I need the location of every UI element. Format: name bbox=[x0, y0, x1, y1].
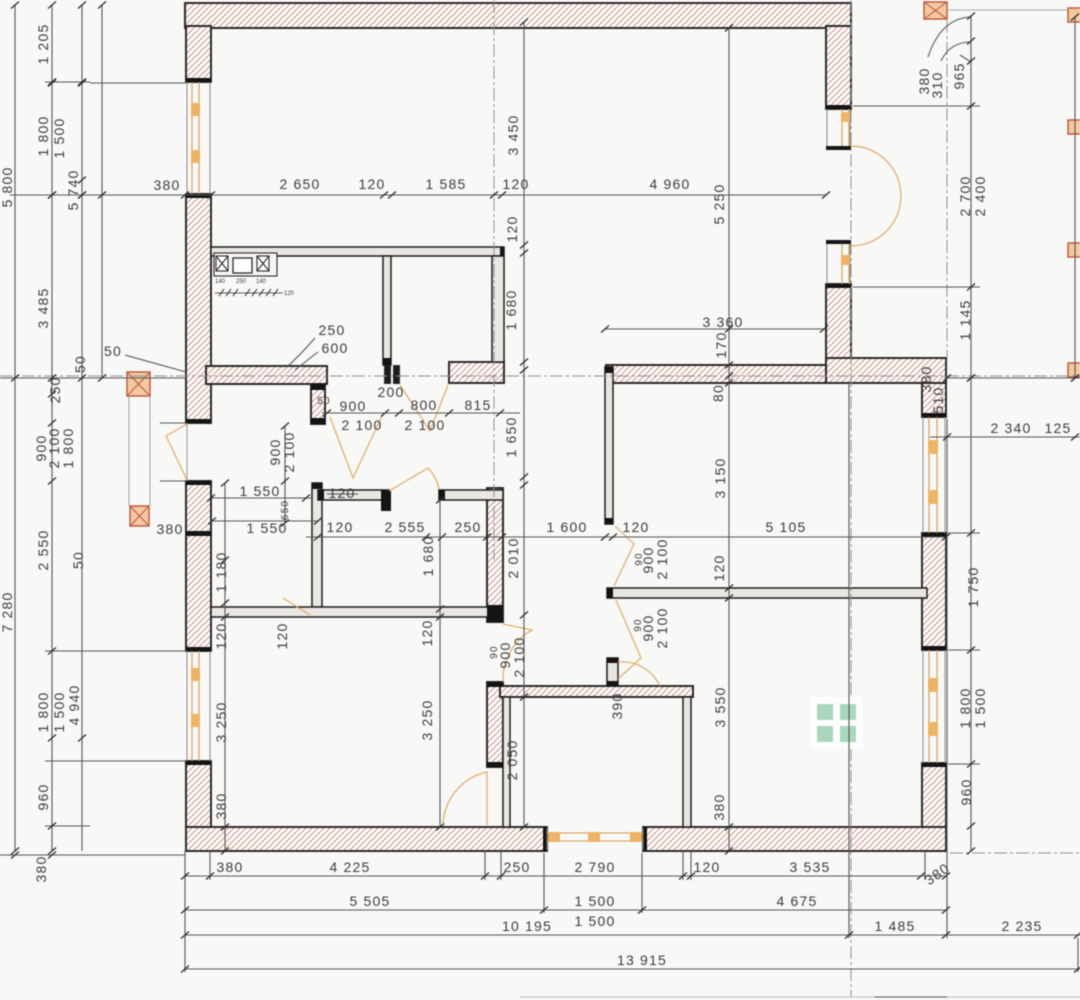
svg-text:7 280: 7 280 bbox=[0, 591, 15, 632]
svg-text:2 340: 2 340 bbox=[990, 420, 1031, 436]
svg-text:120: 120 bbox=[419, 620, 435, 647]
extension lines left bbox=[10, 83, 186, 826]
svg-text:120: 120 bbox=[504, 216, 520, 243]
terrace columns right edge bbox=[1068, 8, 1080, 377]
entry door outer face line bbox=[186, 423, 188, 481]
dim line 1550 upper bbox=[211, 497, 312, 499]
door bath bbox=[389, 468, 439, 491]
svg-text:2 555: 2 555 bbox=[384, 519, 425, 535]
svg-text:250: 250 bbox=[319, 322, 346, 338]
svg-text:1 550: 1 550 bbox=[239, 483, 280, 499]
svg-text:1 680: 1 680 bbox=[420, 535, 436, 576]
svg-text:2 400: 2 400 bbox=[972, 175, 988, 216]
svg-text:120: 120 bbox=[711, 555, 727, 582]
wall right-lower exterior bottom block bbox=[922, 763, 946, 851]
svg-text:13 915: 13 915 bbox=[617, 952, 667, 968]
dim line 2340 y437 bbox=[930, 436, 1080, 438]
svg-text:250: 250 bbox=[504, 859, 531, 875]
dim line bottom left y855 bbox=[0, 854, 185, 856]
svg-text:1 500: 1 500 bbox=[51, 117, 67, 158]
leader lines left step bbox=[125, 338, 318, 372]
grid dash-dot horizontal main bbox=[0, 375, 1080, 377]
svg-text:2 100: 2 100 bbox=[281, 431, 297, 472]
svg-text:5 250: 5 250 bbox=[711, 183, 727, 224]
door bottom-left room bbox=[443, 772, 487, 825]
svg-text:380: 380 bbox=[154, 177, 181, 193]
svg-text:510: 510 bbox=[930, 387, 946, 414]
svg-text:3 550: 3 550 bbox=[712, 686, 728, 727]
wall right-upper exterior block above window bbox=[826, 26, 851, 109]
svg-text:140: 140 bbox=[256, 279, 267, 285]
wall right-upper exterior block below doors bbox=[826, 284, 851, 360]
svg-text:960: 960 bbox=[35, 784, 51, 811]
wall end caps and window jambs bbox=[186, 78, 946, 851]
porch column left lower bbox=[130, 506, 149, 526]
svg-text:5 105: 5 105 bbox=[765, 519, 806, 535]
bottom edge artifact line bbox=[520, 996, 1080, 998]
terrace edge lines bbox=[947, 10, 1075, 363]
wall left exterior mid block bbox=[186, 194, 211, 423]
svg-text:1 500: 1 500 bbox=[574, 913, 615, 929]
dim line bottom chain3 y935 bbox=[185, 934, 1080, 936]
dim vertical x225 bbox=[224, 483, 226, 851]
wall G vertical hall west bbox=[312, 483, 322, 607]
dim vertical x729 bbox=[728, 28, 730, 851]
svg-text:50: 50 bbox=[70, 551, 86, 569]
wall J bath north left part bbox=[318, 490, 389, 500]
svg-text:1 145: 1 145 bbox=[957, 299, 973, 340]
window bottom wall bbox=[547, 828, 643, 850]
wall hall-south hatched lower block bbox=[487, 682, 503, 767]
svg-text:390: 390 bbox=[609, 693, 625, 720]
svg-text:5 800: 5 800 bbox=[0, 166, 15, 207]
dim vertical right x971 bbox=[970, 16, 972, 851]
dim vertical L4 x102 bbox=[101, 5, 103, 378]
svg-text:380: 380 bbox=[33, 856, 49, 883]
dim line bottom chain2 y910 bbox=[185, 909, 947, 911]
wall step horizontal right bbox=[826, 358, 946, 383]
svg-text:1 485: 1 485 bbox=[874, 918, 915, 934]
wall bottom exterior right part bbox=[643, 827, 946, 851]
dim vertical L2 x52 bbox=[51, 5, 53, 851]
wall bottom exterior left part bbox=[186, 827, 547, 851]
chimney tiny dims bbox=[215, 279, 295, 297]
wall H bedroom1 north bbox=[211, 607, 489, 617]
svg-text:170: 170 bbox=[713, 332, 729, 359]
window left lower bbox=[187, 651, 210, 761]
door closet arc bbox=[618, 662, 660, 686]
window left upper bbox=[187, 82, 210, 194]
wall L living south horizontal bbox=[607, 588, 927, 598]
wall B vertical between top rooms bbox=[383, 256, 391, 365]
svg-text:310: 310 bbox=[929, 72, 945, 99]
leader lines top right bbox=[928, 17, 971, 57]
svg-text:250: 250 bbox=[236, 279, 247, 285]
svg-text:1 750: 1 750 bbox=[965, 566, 981, 607]
svg-text:380: 380 bbox=[213, 793, 229, 820]
dim line top chain y195 bbox=[10, 194, 826, 196]
svg-text:5 505: 5 505 bbox=[349, 893, 390, 909]
door corridor 900 bbox=[330, 414, 383, 478]
svg-text:1 600: 1 600 bbox=[546, 519, 587, 535]
exterior walls bbox=[185, 3, 946, 851]
svg-text:650: 650 bbox=[280, 500, 291, 520]
svg-text:2 100: 2 100 bbox=[341, 417, 382, 433]
wall bottom-middle room north bbox=[500, 686, 693, 697]
svg-text:2 050: 2 050 bbox=[504, 739, 520, 780]
svg-text:50: 50 bbox=[104, 343, 122, 359]
svg-text:2 100: 2 100 bbox=[654, 607, 670, 648]
svg-text:120: 120 bbox=[359, 176, 386, 192]
svg-text:900: 900 bbox=[340, 398, 367, 414]
dim vertical terrace x1075 bbox=[1074, 17, 1076, 378]
dim line 3360 bbox=[605, 328, 824, 330]
svg-text:120: 120 bbox=[329, 485, 356, 501]
dim line 1550 lower bbox=[211, 520, 318, 522]
wall M bottom-middle room east bbox=[683, 697, 691, 827]
wall C vertical right of top rooms bbox=[492, 256, 504, 362]
svg-text:1 800: 1 800 bbox=[35, 691, 51, 732]
svg-text:50: 50 bbox=[317, 396, 331, 407]
horizontal dimension labels bbox=[104, 176, 1071, 968]
green logo watermark bbox=[810, 697, 863, 749]
window right-upper above terrace doors bbox=[827, 109, 850, 146]
svg-text:1 585: 1 585 bbox=[425, 176, 466, 192]
svg-text:2 550: 2 550 bbox=[35, 529, 51, 570]
svg-text:4 940: 4 940 bbox=[66, 684, 82, 725]
svg-text:120: 120 bbox=[327, 519, 354, 535]
svg-text:10 195: 10 195 bbox=[502, 918, 552, 934]
svg-text:1 800: 1 800 bbox=[60, 427, 76, 468]
chimney block detail bbox=[214, 253, 277, 276]
svg-text:1 800: 1 800 bbox=[35, 115, 51, 156]
wall J bath north right part bbox=[439, 490, 503, 500]
svg-text:120: 120 bbox=[274, 623, 290, 650]
terrace double door arcs bbox=[851, 146, 901, 246]
svg-text:140: 140 bbox=[215, 279, 226, 285]
svg-text:965: 965 bbox=[951, 63, 967, 90]
wall pier between doors bbox=[385, 366, 390, 383]
entry door left wall bbox=[166, 424, 187, 480]
svg-text:120: 120 bbox=[284, 291, 295, 297]
dim line right y378 bbox=[0, 377, 1080, 379]
wall stub right of corridor doors bbox=[449, 362, 504, 383]
svg-text:2 100: 2 100 bbox=[511, 636, 527, 677]
dim vertical L1 x15 bbox=[14, 5, 16, 851]
porch column left upper bbox=[127, 372, 150, 396]
dim line mid chain y537 bbox=[306, 536, 946, 538]
svg-text:80: 80 bbox=[710, 384, 726, 402]
door bedroom1 small leaf bbox=[283, 598, 310, 615]
svg-text:3 250: 3 250 bbox=[419, 699, 435, 740]
door living south leaf bbox=[616, 600, 641, 679]
svg-text:3 535: 3 535 bbox=[789, 859, 830, 875]
svg-text:4 675: 4 675 bbox=[776, 893, 817, 909]
svg-text:3 485: 3 485 bbox=[35, 287, 51, 328]
svg-text:380: 380 bbox=[711, 794, 727, 821]
wall A top rooms south bbox=[211, 247, 504, 256]
wall living-north hatched bbox=[606, 365, 826, 383]
svg-text:1 650: 1 650 bbox=[503, 416, 519, 457]
svg-text:815: 815 bbox=[465, 397, 492, 413]
extension lines right bbox=[853, 106, 980, 764]
interior walls bbox=[211, 247, 927, 827]
door corridor 800 bbox=[400, 385, 448, 431]
wall left exterior upper block bbox=[186, 26, 211, 82]
wall left exterior bottom block bbox=[186, 761, 211, 829]
dim vertical x440 bbox=[439, 500, 441, 827]
door bottom-middle room bbox=[503, 624, 532, 682]
grid dash-dot horizontal bottom right bbox=[950, 852, 1080, 854]
svg-text:1 500: 1 500 bbox=[972, 687, 988, 728]
svg-text:250: 250 bbox=[47, 377, 63, 404]
grid dash-dot vertical B bbox=[850, 0, 852, 997]
dim vertical x524 bbox=[523, 22, 525, 827]
rotated dimension labels bbox=[0, 23, 988, 882]
svg-text:800: 800 bbox=[411, 397, 438, 413]
svg-text:960: 960 bbox=[958, 779, 974, 806]
porch outline lines bbox=[129, 396, 150, 506]
wall O stub at bottom-middle room bbox=[607, 658, 618, 686]
svg-text:120: 120 bbox=[694, 859, 721, 875]
svg-text:1 550: 1 550 bbox=[246, 520, 287, 536]
wall step vertical right bbox=[922, 383, 946, 417]
svg-text:2 100: 2 100 bbox=[654, 538, 670, 579]
svg-text:3 360: 3 360 bbox=[702, 314, 743, 330]
svg-text:2 010: 2 010 bbox=[505, 537, 521, 578]
window right-upper below terrace doors bbox=[827, 244, 850, 284]
extension lines bottom bbox=[185, 383, 1078, 972]
dim line bottom chain1 y876 bbox=[185, 875, 947, 877]
svg-text:125: 125 bbox=[1045, 420, 1072, 436]
svg-text:120: 120 bbox=[503, 176, 530, 192]
svg-text:3 150: 3 150 bbox=[712, 457, 728, 498]
svg-text:120: 120 bbox=[623, 519, 650, 535]
svg-text:2 790: 2 790 bbox=[574, 859, 615, 875]
svg-text:380: 380 bbox=[157, 521, 184, 537]
svg-text:3 250: 3 250 bbox=[213, 701, 229, 742]
grid dash-dot vertical A bbox=[493, 0, 495, 560]
terrace column top bbox=[924, 2, 947, 19]
wall hall-south hatched upper block bbox=[487, 488, 503, 622]
svg-text:2 100: 2 100 bbox=[404, 417, 445, 433]
svg-text:4 960: 4 960 bbox=[649, 176, 690, 192]
door living north leaf bbox=[614, 526, 634, 586]
svg-text:5 740: 5 740 bbox=[65, 169, 81, 210]
grid dash-dot vertical C bbox=[946, 20, 948, 378]
svg-text:2 700: 2 700 bbox=[957, 175, 973, 216]
svg-text:380: 380 bbox=[921, 860, 952, 889]
svg-text:1 500: 1 500 bbox=[574, 893, 615, 909]
svg-text:1 205: 1 205 bbox=[35, 23, 51, 64]
wall right-lower exterior block mid bbox=[922, 533, 946, 650]
svg-text:1 800: 1 800 bbox=[957, 687, 973, 728]
svg-text:3 450: 3 450 bbox=[505, 114, 521, 155]
strike line bbox=[327, 493, 358, 495]
wall stub below left step bbox=[311, 384, 325, 424]
svg-text:1 680: 1 680 bbox=[503, 289, 519, 330]
svg-text:4 225: 4 225 bbox=[329, 859, 370, 875]
window right-lower lower bbox=[923, 650, 945, 763]
wall K living west vertical bbox=[605, 367, 613, 524]
svg-text:1 500: 1 500 bbox=[51, 691, 67, 732]
dim vertical x285 entry bbox=[284, 426, 286, 523]
svg-text:2 650: 2 650 bbox=[279, 176, 320, 192]
wall top exterior bbox=[185, 3, 851, 28]
svg-text:380: 380 bbox=[217, 859, 244, 875]
dim vertical L3 x82 bbox=[81, 5, 83, 851]
svg-text:50: 50 bbox=[72, 355, 88, 373]
svg-text:120: 120 bbox=[213, 623, 229, 650]
wall lining bottom-middle room west bbox=[503, 697, 510, 827]
chimney arrow row bbox=[215, 289, 283, 296]
wall left exterior block below entry door bbox=[186, 481, 211, 651]
svg-text:600: 600 bbox=[322, 340, 349, 356]
dim line bottom chain4 y969 bbox=[185, 968, 1080, 970]
svg-text:200: 200 bbox=[378, 384, 405, 400]
svg-text:2 235: 2 235 bbox=[1001, 918, 1042, 934]
svg-text:1 180: 1 180 bbox=[213, 551, 229, 592]
window right-lower upper bbox=[923, 417, 945, 533]
dim line door chain y413 bbox=[322, 412, 520, 414]
svg-text:250: 250 bbox=[455, 519, 482, 535]
dim line left y82 bbox=[45, 81, 90, 83]
wall interior load-bearing left step bbox=[206, 366, 327, 384]
